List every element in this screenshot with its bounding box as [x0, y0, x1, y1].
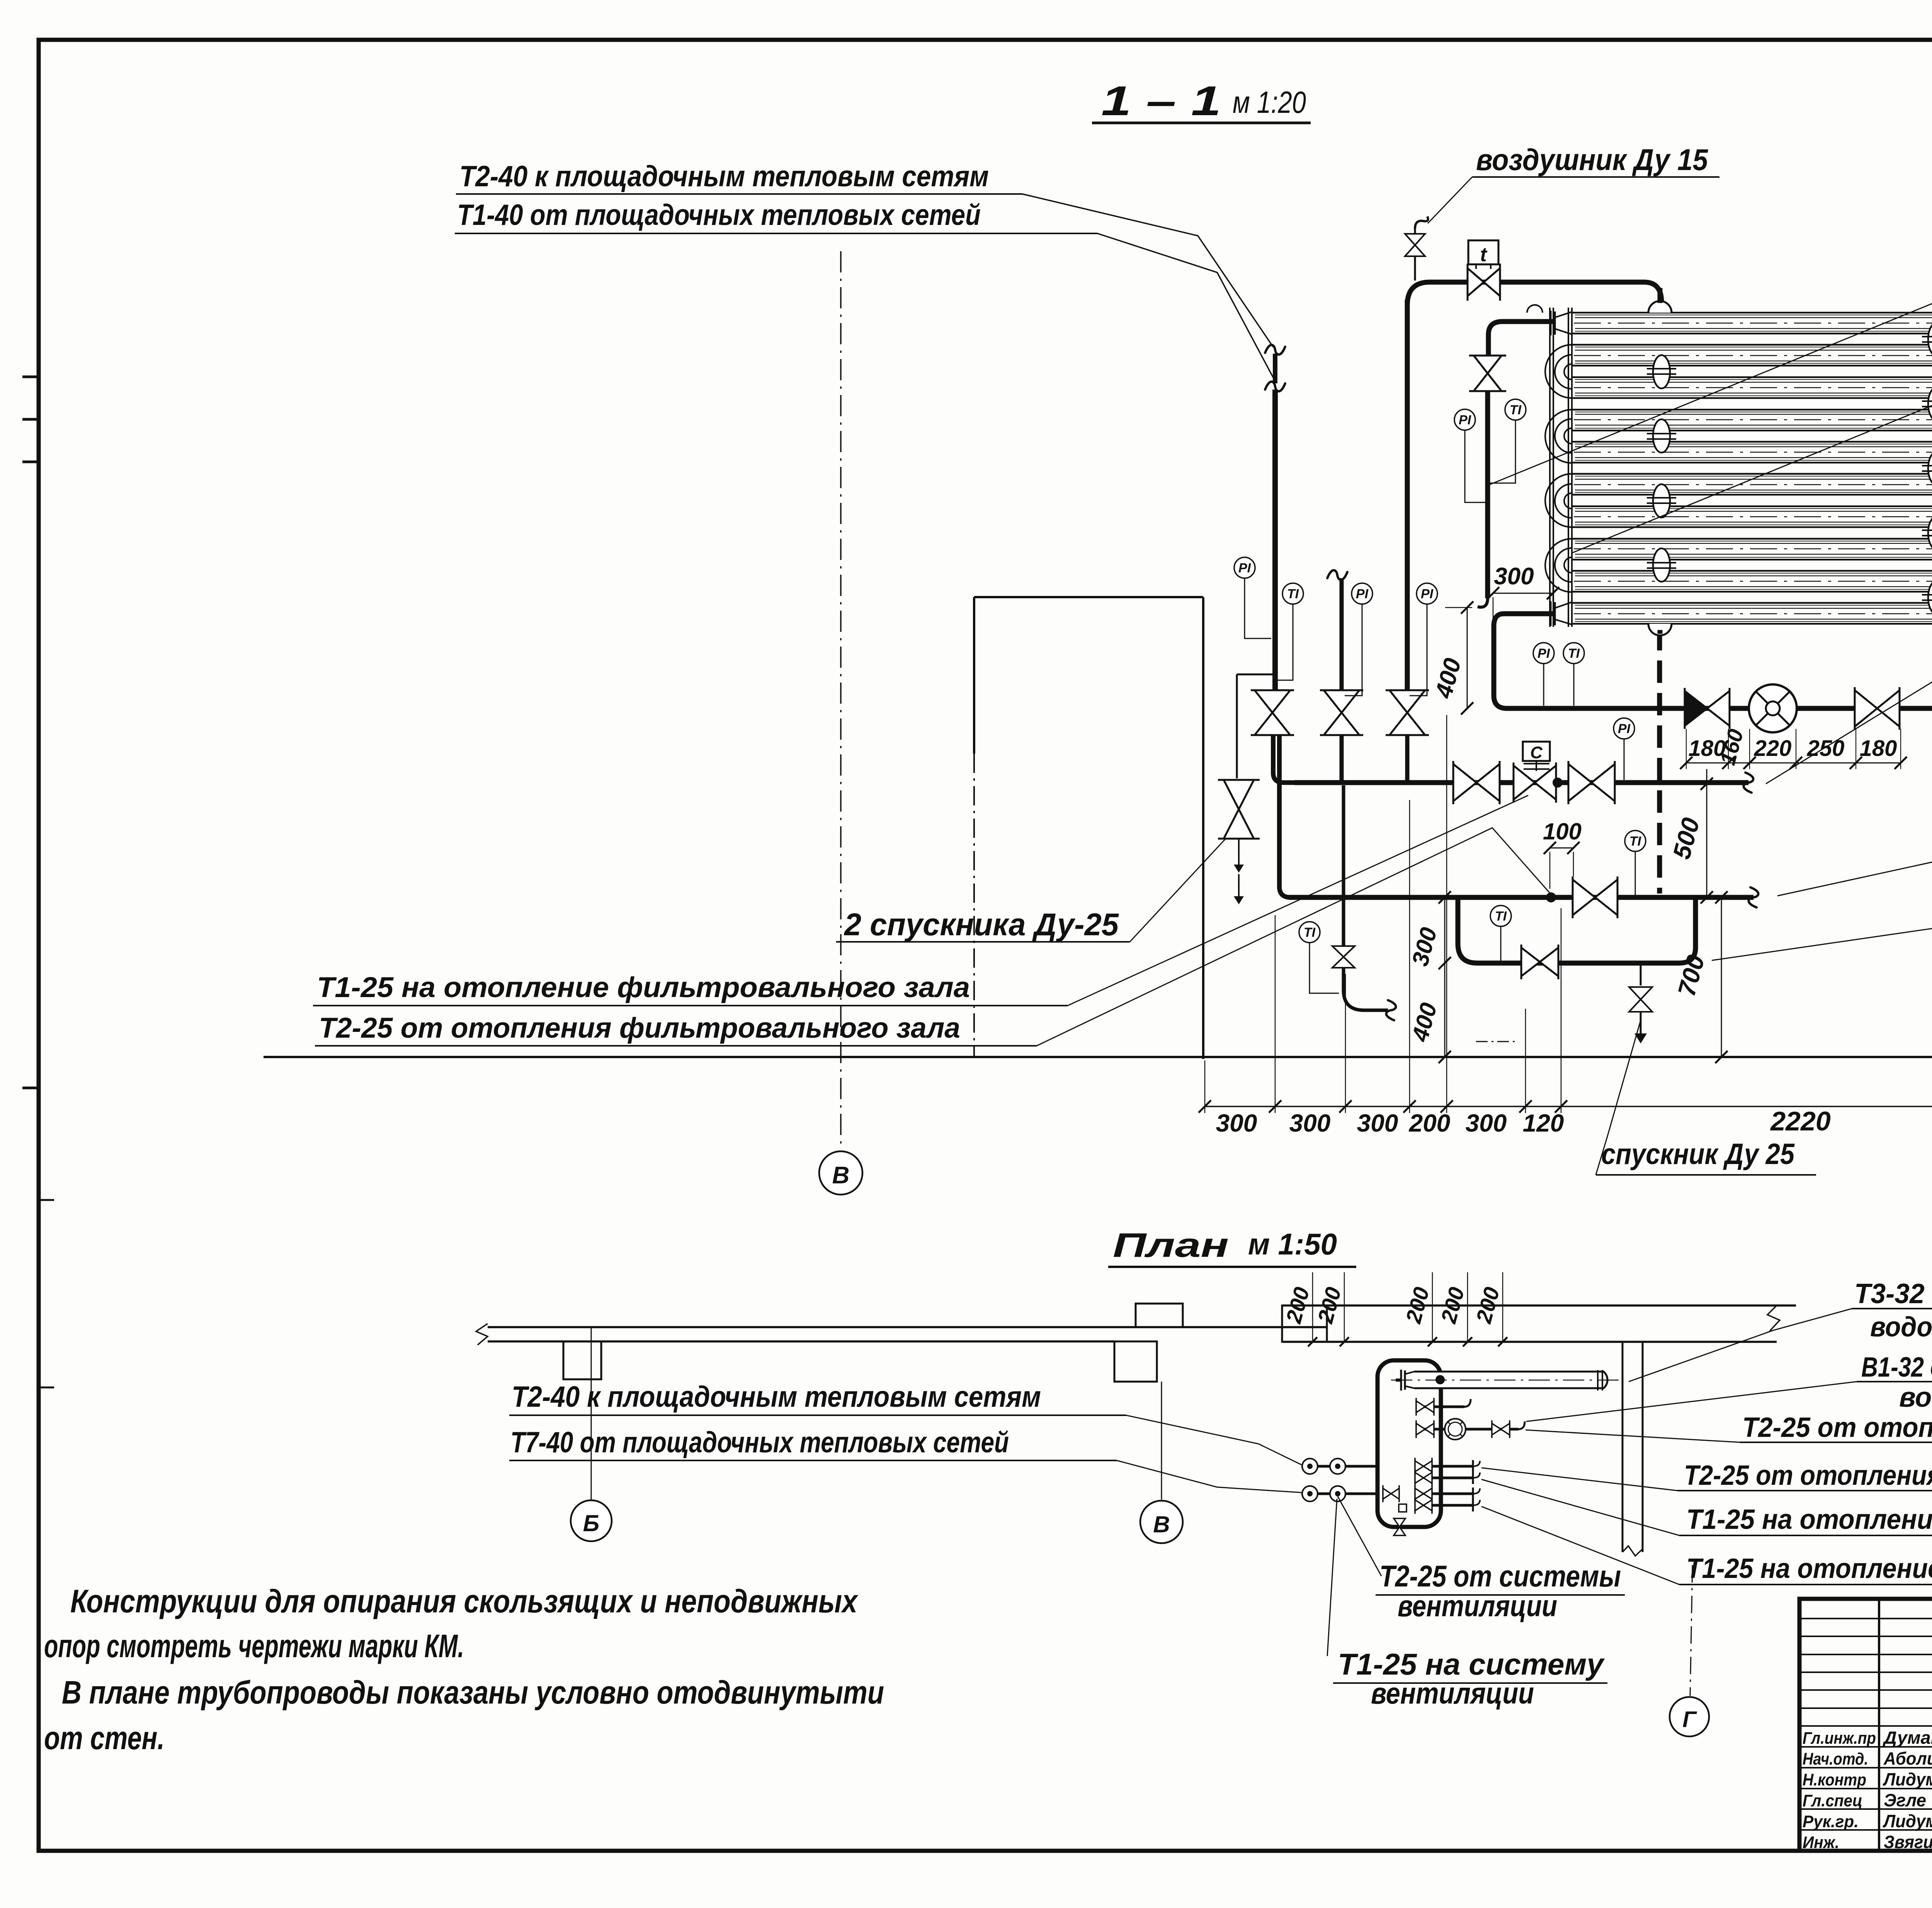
svg-text:TI: TI: [1510, 403, 1522, 417]
svg-text:300: 300: [1494, 563, 1534, 590]
svg-text:Гл.спец: Гл.спец: [1803, 1791, 1862, 1810]
svg-text:Звягинцева: Звягинцева: [1884, 1832, 1932, 1852]
svg-text:300: 300: [1357, 1109, 1398, 1137]
svg-text:Т2-25 от системы: Т2-25 от системы: [1379, 1559, 1621, 1593]
svg-text:t: t: [1480, 243, 1488, 266]
svg-text:Б: Б: [583, 1510, 599, 1536]
svg-text:м 1:20: м 1:20: [1233, 85, 1306, 119]
svg-text:Т2-25 от отопления фильтроваль: Т2-25 от отопления фильтровального зала: [319, 1012, 960, 1044]
svg-text:220: 220: [1754, 736, 1792, 761]
svg-text:2 спускника Ду-25: 2 спускника Ду-25: [844, 907, 1119, 942]
svg-text:Эгле: Эгле: [1884, 1790, 1926, 1810]
svg-text:В1-32 от холодного: В1-32 от холодного: [1861, 1352, 1932, 1383]
svg-text:200: 200: [1409, 1109, 1451, 1137]
svg-text:Думан: Думан: [1882, 1728, 1932, 1748]
svg-text:Т7-40 от площадочных тепловых: Т7-40 от площадочных тепловых сетей: [510, 1426, 1009, 1459]
svg-text:PI: PI: [1421, 587, 1434, 601]
svg-text:TI: TI: [1287, 587, 1299, 601]
svg-text:Аболин: Аболин: [1883, 1748, 1932, 1768]
svg-text:вентиляции: вентиляции: [1371, 1676, 1534, 1710]
svg-text:120: 120: [1523, 1109, 1564, 1137]
svg-text:Т1-25 на отопление фильтроваль: Т1-25 на отопление фильтровального зала: [317, 971, 970, 1003]
svg-text:180: 180: [1860, 736, 1897, 761]
svg-text:TI: TI: [1629, 834, 1642, 849]
svg-text:Т1-25 на отопление фильтровал: Т1-25 на отопление фильтровального зала: [1686, 1553, 1932, 1584]
svg-text:TI: TI: [1568, 646, 1580, 661]
svg-text:Т1-40 от площадочных тепловых: Т1-40 от площадочных тепловых сетей: [457, 199, 981, 231]
svg-text:TI: TI: [1495, 909, 1507, 924]
svg-text:Рук.гр.: Рук.гр.: [1803, 1812, 1859, 1831]
svg-text:PI: PI: [1356, 587, 1369, 601]
svg-text:Т3-32 на горячее: Т3-32 на горячее: [1854, 1278, 1932, 1309]
svg-text:Лидумс: Лидумс: [1883, 1769, 1932, 1789]
svg-text:опор смотреть чертежи марки: опор смотреть чертежи марки КМ.: [44, 1628, 464, 1664]
svg-text:Лидумс: Лидумс: [1883, 1811, 1932, 1831]
svg-text:TI: TI: [1304, 925, 1316, 940]
svg-text:Г: Г: [1682, 1707, 1697, 1732]
svg-text:водоснабжение: водоснабжение: [1870, 1312, 1932, 1343]
svg-text:300: 300: [1216, 1109, 1257, 1137]
svg-text:300: 300: [1466, 1109, 1507, 1137]
svg-text:Гл.инж.пр: Гл.инж.пр: [1803, 1729, 1876, 1748]
svg-text:300: 300: [1289, 1109, 1331, 1137]
svg-text:Т2-40 к площадочным тепловым: Т2-40 к площадочным тепловым сетям: [459, 160, 989, 193]
svg-text:от стен.: от стен.: [44, 1720, 165, 1756]
svg-text:100: 100: [1543, 819, 1582, 844]
svg-text:Конструкции для опирания ск: Конструкции для опирания скользящих и не…: [70, 1583, 859, 1619]
svg-text:В: В: [1153, 1511, 1170, 1537]
svg-text:м 1:50: м 1:50: [1248, 1227, 1337, 1261]
svg-text:Н.контр: Н.контр: [1803, 1770, 1866, 1789]
svg-text:В плане трубопроводы показа: В плане трубопроводы показаны условно от…: [62, 1674, 884, 1711]
svg-text:Инж.: Инж.: [1803, 1833, 1839, 1852]
svg-text:Нач.отд.: Нач.отд.: [1803, 1750, 1868, 1768]
svg-text:2220: 2220: [1770, 1106, 1831, 1136]
svg-text:250: 250: [1807, 736, 1845, 761]
svg-text:С: С: [1530, 743, 1543, 762]
svg-text:водоснабжения: водоснабжения: [1899, 1382, 1932, 1413]
svg-text:В: В: [832, 1162, 850, 1189]
svg-text:PI: PI: [1238, 561, 1252, 575]
svg-text:воздушник Ду 15: воздушник Ду 15: [1476, 143, 1708, 177]
svg-text:Т1-25 на отопление бытовых п: Т1-25 на отопление бытовых помещений: [1686, 1504, 1932, 1535]
svg-text:PI: PI: [1537, 646, 1551, 661]
svg-text:Т2-40 к площадочным тепловым: Т2-40 к площадочным тепловым сетям: [512, 1380, 1041, 1413]
svg-text:вентиляции: вентиляции: [1398, 1589, 1557, 1623]
svg-text:Т2-25 от отопления бытовых п: Т2-25 от отопления бытовых помещений: [1742, 1412, 1932, 1443]
svg-text:Т2-25 от отопления фильтровал: Т2-25 от отопления фильтровального зала: [1684, 1460, 1932, 1491]
svg-text:PI: PI: [1459, 413, 1472, 427]
svg-text:1 – 1: 1 – 1: [1101, 77, 1221, 124]
svg-text:План: План: [1113, 1226, 1229, 1264]
svg-text:спускник Ду 25: спускник Ду 25: [1601, 1138, 1795, 1171]
svg-text:PI: PI: [1618, 722, 1631, 736]
